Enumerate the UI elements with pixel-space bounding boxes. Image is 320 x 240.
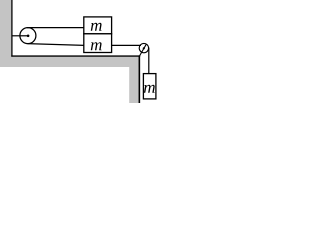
table right edge line (138, 55, 140, 103)
wall (gray, left) (0, 0, 11, 67)
label m (upper block) (91, 23, 102, 31)
wire: vertical string to hanging block (148, 48, 150, 74)
block m (upper) (84, 17, 112, 34)
pulley P2 (table corner) (139, 43, 148, 52)
pulley P1 (wall-mounted) (20, 28, 36, 44)
pulley P1 axle dot (27, 35, 30, 38)
pulley P2 mount strut (from table corner) (140, 44, 147, 55)
wire: pulley mount rod from wall (12, 35, 28, 37)
label m (lower block) (91, 42, 102, 50)
wire: string from lower block to corner pulley (112, 44, 141, 46)
block m (hanging) (143, 74, 156, 99)
table top line (11, 55, 140, 57)
pulley P2 axle dot (143, 47, 145, 49)
wire: top string to upper block (27, 27, 84, 29)
table leg (gray, right end) (129, 57, 139, 103)
background (0, 0, 157, 103)
label m (hanging block) (144, 85, 155, 93)
wall edge line (11, 0, 13, 57)
block m (lower) (84, 34, 112, 53)
wire: bottom string to lower block (27, 44, 84, 46)
table slab (gray) (0, 57, 140, 67)
